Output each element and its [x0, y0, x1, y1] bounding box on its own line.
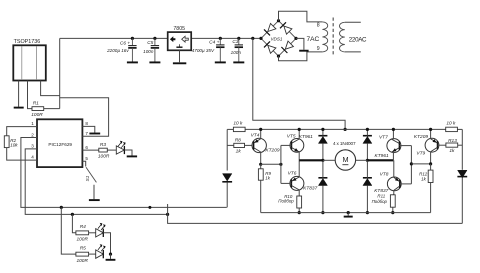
resistor R11 [372, 194, 396, 208]
LED HL2 [96, 223, 105, 237]
resistor R1 [31, 101, 43, 119]
svg-text:100R: 100R [98, 154, 110, 160]
IR receiver TSOP1736 [13, 39, 46, 81]
transistor VT8 KT837 [374, 172, 401, 194]
wire R9 bottom to bottom rail [260, 180, 262, 212]
svg-text:6: 6 [85, 145, 88, 150]
pin 7 label [85, 131, 88, 136]
capacitor C3 [231, 37, 243, 62]
svg-text:R5: R5 [80, 246, 86, 252]
wire VT5 base lead [281, 144, 292, 146]
wire collector node to base node [261, 163, 281, 165]
diode VD3 upper right [363, 129, 372, 160]
pin 8 label [85, 121, 88, 126]
node VD2 bottom [321, 211, 324, 214]
transistor VT7 KT961 [375, 135, 401, 160]
motor M1 [335, 150, 355, 170]
pin 5 label [85, 156, 88, 161]
bridge rectifier VDS1 [259, 19, 297, 58]
resistor R13 [446, 138, 458, 154]
svg-text:TSOP1736: TSOP1736 [14, 39, 41, 45]
diode VD2 lower left [318, 160, 327, 212]
ground (LED1) [127, 155, 137, 157]
wire +5V vertical [59, 38, 61, 108]
svg-text:VDS1: VDS1 [270, 36, 282, 41]
wire R10 bottom [298, 208, 300, 213]
wire 7805 ground lead [179, 50, 181, 62]
svg-text:7: 7 [85, 131, 88, 136]
resistor R2 [4, 136, 18, 148]
resistor R3 [98, 142, 110, 160]
ground (C5) [149, 61, 160, 63]
wire R3 to LED1 [107, 149, 117, 151]
svg-text:1k: 1k [421, 177, 426, 182]
svg-text:5: 5 [85, 156, 88, 161]
wire 12V feed to H-bridge [253, 38, 345, 129]
transistor VT6 KT837 [288, 170, 318, 191]
svg-text:10 k: 10 k [446, 121, 456, 127]
svg-text:4: 4 [31, 155, 34, 160]
capacitor C6 [106, 37, 136, 62]
wire line B to R4 [72, 214, 76, 232]
transistor VT4 KT209 [251, 132, 280, 153]
transistor VT5 KT961 [287, 133, 314, 152]
svg-text:7AC: 7AC [306, 36, 319, 43]
wire pin 8 to ground [82, 126, 94, 132]
svg-text:1k: 1k [236, 148, 242, 154]
switch S1 [85, 167, 96, 182]
transformer core (dashed) [332, 18, 334, 57]
node VT9 collector [429, 162, 432, 165]
pin 4 label [31, 155, 34, 160]
svg-text:8: 8 [317, 22, 320, 28]
node VD4 bottom [366, 211, 369, 214]
svg-text:KT837: KT837 [303, 186, 317, 192]
ground (7805) [173, 62, 186, 64]
node VT7 collector [392, 128, 395, 131]
node LED feed A [60, 206, 63, 209]
transformer secondary winding 220AC [340, 22, 368, 52]
pin 1 label [31, 121, 34, 126]
resistor 10k left [233, 121, 245, 132]
node VD1 top [321, 128, 324, 131]
ground (S1) [89, 199, 100, 201]
svg-text:220AC: 220AC [349, 37, 367, 44]
ground (pin 8) [89, 133, 100, 135]
wire motor right lead [356, 159, 368, 161]
wire VT8 emitter up [393, 160, 395, 177]
wire TSOP pin3 out [41, 81, 60, 96]
wire VT6 emitter up to motor line [298, 160, 300, 177]
diode VD4 lower right [363, 160, 372, 212]
svg-text:100n: 100n [231, 50, 242, 55]
wire VT4 emitter to rail [260, 129, 262, 138]
node base tie right [410, 162, 413, 165]
ground (C4) [215, 61, 226, 63]
diode VD left [222, 174, 232, 182]
ground (TSOP pin1) [14, 107, 24, 109]
svg-text:PIC12F629: PIC12F629 [48, 142, 72, 147]
wire VT6 base lead [281, 182, 292, 184]
node 12V feed junction [251, 37, 254, 40]
node VD1 bottom [321, 159, 324, 162]
svg-text:KT961: KT961 [375, 153, 389, 159]
svg-text:KT209: KT209 [414, 134, 428, 140]
svg-text:Подбор: Подбор [372, 199, 388, 204]
svg-text:R4: R4 [80, 224, 86, 230]
wire base tie to VT9 collector [411, 163, 430, 165]
svg-text:2: 2 [31, 132, 34, 137]
resistor R9 [258, 169, 271, 181]
label 7AC [306, 36, 319, 43]
svg-text:4700µ 35V: 4700µ 35V [192, 48, 215, 53]
wire VT7/VT8 base vertical [410, 146, 412, 184]
svg-text:KT209: KT209 [265, 148, 279, 154]
wire VT9 collector down [430, 152, 432, 164]
wire VT5/VT6 base vertical [280, 145, 282, 183]
wire R13 right [458, 144, 463, 146]
svg-text:M: M [342, 155, 348, 164]
wire H-bridge top rail [227, 128, 462, 130]
wire R2 bottom to pin 4 [7, 148, 37, 161]
wire R5 to LED3 [89, 253, 96, 255]
wire motor left lead [323, 159, 335, 161]
LED HL3 [96, 245, 105, 259]
resistor R5 [76, 246, 89, 264]
diode VD right [457, 170, 467, 177]
wire VT7 base lead [399, 145, 411, 147]
diode top-right [284, 26, 292, 34]
svg-text:C3: C3 [232, 39, 238, 45]
wire left base chain vertical [226, 129, 228, 207]
svg-text:VT6: VT6 [288, 170, 297, 176]
resistor 10k right [446, 121, 458, 132]
wire H-bridge bottom rail [261, 212, 431, 214]
wire VT7 collector to rail [392, 129, 394, 139]
node VT9 emitter [429, 128, 432, 131]
microcontroller U1 PIC12F629 [37, 119, 82, 167]
svg-text:3: 3 [31, 144, 34, 149]
svg-text:VT7: VT7 [379, 135, 388, 141]
wire R8 left [227, 144, 234, 146]
wire TSOP pin1 [18, 81, 20, 107]
wire bridge minus to ground [296, 38, 304, 49]
wire R1 right to +5V vertical [44, 108, 60, 110]
diode VD1 upper left [318, 129, 327, 160]
svg-text:R11: R11 [377, 194, 385, 199]
wire R4 to LED2 [89, 232, 96, 234]
wire VT5 emitter to motor line [298, 152, 300, 160]
svg-text:VT9: VT9 [416, 150, 425, 156]
wire R2 top to pin 1 [7, 127, 37, 136]
wire R8 right to VT4 base [245, 144, 254, 146]
wire LED2 to ground vertical [103, 233, 110, 254]
node VT5 collector [298, 128, 301, 131]
wire VT4 collector down [260, 152, 262, 164]
svg-text:VT4: VT4 [251, 132, 260, 138]
wire VT7 emitter to motor line [392, 152, 394, 160]
wire VT9 emitter to rail [430, 129, 432, 138]
resistor R12 [419, 170, 433, 182]
svg-text:1k: 1k [265, 176, 270, 181]
ground (LEDs) [106, 259, 116, 261]
node feed joins bridge rail [344, 128, 347, 131]
pin 3 label [31, 144, 34, 149]
resistor R10 [278, 194, 301, 208]
svg-text:1k: 1k [449, 148, 455, 154]
ground (H-bridge) [344, 211, 353, 217]
node stray junction on line A [148, 206, 151, 209]
node LED ground junction [109, 253, 112, 256]
wire VT8 collector to R11 [393, 190, 394, 194]
wire rail right of 7805 [191, 37, 261, 39]
voltage regulator 7805 [168, 26, 192, 51]
ground (C6) [127, 61, 138, 63]
svg-text:4 x 1N4007: 4 x 1N4007 [333, 141, 356, 146]
svg-text:2200µ 16v: 2200µ 16v [106, 48, 129, 53]
node VT5/VT6 base tie [279, 163, 282, 166]
LED HL1 [116, 141, 125, 154]
wire R12 bottom to bottom rail [430, 183, 432, 213]
wire TSOP pin2 to R1 [28, 81, 33, 109]
wire VT6 collector to R10 [298, 190, 300, 196]
svg-text:8: 8 [85, 121, 88, 126]
resistor R4 [76, 224, 89, 242]
wire bridge AC bottom to transformer pin 9 [279, 52, 323, 61]
wire bridge AC top to transformer pin 8 [279, 11, 323, 22]
node R10 bottom [298, 211, 301, 214]
svg-text:10k: 10k [10, 142, 18, 147]
node VT4 collector [259, 163, 262, 166]
capacitor C4 [192, 37, 225, 62]
svg-text:1: 1 [31, 121, 34, 126]
svg-text:100R: 100R [76, 258, 88, 264]
wire pin 6 to R3 [82, 149, 98, 151]
wire +5V rail left of 7805 [60, 37, 168, 39]
node LED feed B [71, 213, 74, 216]
svg-text:R8: R8 [235, 138, 241, 144]
node VT4 emitter [259, 128, 262, 131]
wire LED1 to ground [124, 150, 132, 156]
svg-text:S1: S1 [85, 175, 90, 181]
svg-text:100R: 100R [76, 237, 88, 243]
node line B junction [166, 213, 169, 216]
wire R9 top [260, 164, 262, 169]
wire pin 7 to IR data [60, 98, 109, 137]
svg-text:10 k: 10 k [233, 121, 243, 127]
svg-text:100n: 100n [143, 49, 154, 54]
node R11 bottom [391, 211, 394, 214]
wire pin 2 control line A [21, 138, 227, 208]
resistor R8 [234, 138, 245, 155]
transformer primary winding (pins 8/9) [317, 22, 328, 52]
wire switch to ground [93, 185, 95, 199]
svg-text:100R: 100R [31, 112, 43, 118]
svg-text:9: 9 [317, 46, 320, 52]
capacitor C5 [143, 37, 159, 62]
svg-text:R1: R1 [33, 101, 39, 107]
svg-text:Подбор: Подбор [278, 199, 294, 204]
label flyback diodes [333, 141, 356, 146]
diode bottom-right [285, 41, 293, 49]
svg-text:7805: 7805 [173, 26, 185, 32]
svg-text:R3: R3 [100, 142, 106, 148]
node VD3 top [366, 128, 369, 131]
wire motor left heavy [299, 159, 323, 161]
wire VT9 base to R13 [438, 144, 446, 146]
svg-text:VT8: VT8 [380, 172, 389, 178]
pin 2 label [31, 132, 34, 137]
wire line B drop to bottom bus [168, 204, 463, 223]
wire VT5 collector to rail [298, 129, 300, 139]
pin 6 label [85, 145, 88, 150]
wire R12 top [430, 164, 432, 170]
transistor VT9 KT209 [414, 134, 439, 156]
wire pin 3 control line B [25, 149, 167, 215]
wire right base chain vertical [461, 129, 463, 223]
wire motor right heavy [367, 159, 393, 161]
ground (bridge) [299, 50, 308, 52]
wire pin 5 to switch [82, 161, 85, 166]
node VD3 bottom [366, 159, 369, 162]
diode bottom-left [268, 45, 276, 53]
wire line A to R5 [61, 207, 76, 254]
ground (C3) [233, 61, 244, 63]
diode top-left [268, 23, 276, 31]
wire LED junction to ground [110, 254, 112, 259]
wire R11 bottom [392, 207, 394, 212]
wire VT8 base lead [400, 183, 412, 185]
